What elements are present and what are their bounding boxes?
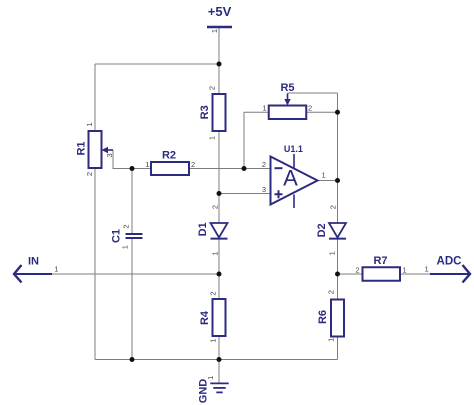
- wire IN pin to D1 node: [52, 273, 219, 275]
- junction +5V node: [217, 62, 222, 67]
- wire +5V rail down to R3 top: [218, 28, 220, 94]
- svg-text:2: 2: [208, 86, 217, 90]
- junction R5 pin2 / wiper node: [335, 110, 340, 115]
- svg-text:C1: C1: [111, 229, 123, 243]
- svg-text:R3: R3: [199, 105, 211, 119]
- resistor R4: [199, 299, 225, 336]
- wire R1 pin2 down to ground rail: [94, 168, 96, 360]
- svg-text:1: 1: [210, 251, 219, 255]
- svg-text:R6: R6: [317, 310, 329, 324]
- svg-text:1: 1: [208, 136, 217, 140]
- svg-text:2: 2: [191, 160, 195, 169]
- svg-text:1: 1: [206, 376, 215, 380]
- svg-text:GND: GND: [198, 379, 210, 404]
- ground GND: [198, 379, 229, 404]
- wire left branch down to R1 pin1: [94, 64, 96, 131]
- svg-text:U1.1: U1.1: [284, 144, 303, 154]
- svg-text:2: 2: [328, 205, 337, 209]
- wire top horizontal from R1 branch to +5V line: [95, 63, 219, 65]
- svg-text:1: 1: [210, 29, 219, 33]
- resistor R3: [199, 94, 225, 131]
- wire node to op-amp non-inverting input: [219, 193, 271, 195]
- svg-text:1: 1: [327, 338, 336, 342]
- svg-text:1: 1: [85, 122, 94, 126]
- wire GND stem: [218, 360, 220, 384]
- junction R1 wiper / R2 / C1 node: [130, 166, 135, 171]
- wire R3 bottom to D1 top: [218, 131, 220, 223]
- junction C1 / ground rail node: [130, 357, 135, 362]
- svg-text:2: 2: [262, 160, 266, 169]
- wire R6 bottom to ground rail: [337, 337, 339, 360]
- svg-text:R4: R4: [199, 310, 211, 325]
- wire bottom ground rail: [95, 359, 338, 361]
- resistor R6: [317, 300, 344, 337]
- svg-text:1: 1: [145, 160, 149, 169]
- wire ADC node down to R6 top: [337, 274, 339, 300]
- svg-text:1: 1: [403, 265, 407, 274]
- wire C1 bottom lead to ground rail: [131, 239, 133, 360]
- op-amp U1.1: [271, 144, 318, 208]
- junction op-amp output node: [335, 178, 340, 183]
- wire C1 top lead: [131, 169, 133, 234]
- svg-text:2: 2: [355, 265, 359, 274]
- junction D2 / R6 / R7 node: [335, 272, 340, 277]
- wire output node down to D2 top: [337, 181, 339, 224]
- wire R2 pin2 to op-amp inverting input: [189, 168, 271, 170]
- svg-text:2: 2: [210, 205, 219, 209]
- power symbol +5V: [207, 4, 232, 27]
- potentiometer R1: [76, 131, 114, 168]
- wire op-amp output to node: [318, 180, 338, 182]
- wire ADC node to R7 pin2: [338, 273, 363, 275]
- svg-text:R1: R1: [76, 141, 88, 155]
- svg-text:1: 1: [54, 264, 58, 273]
- wire R4 bottom to ground rail: [218, 337, 220, 360]
- resistor R2: [151, 150, 189, 176]
- junction feedback node at op-amp input: [242, 166, 247, 171]
- wire right branch down to op-amp output node: [337, 93, 339, 181]
- port ADC: [430, 255, 470, 282]
- svg-text:A: A: [283, 166, 298, 191]
- svg-text:R2: R2: [162, 150, 176, 162]
- wire R5 wiper over to right branch: [288, 92, 338, 94]
- svg-text:R5: R5: [280, 82, 294, 94]
- svg-text:3: 3: [105, 153, 114, 157]
- trimmer R5: [269, 82, 307, 119]
- wire R7 pin1 to ADC arrow: [400, 273, 430, 275]
- svg-text:2: 2: [85, 172, 94, 176]
- svg-text:2: 2: [121, 225, 130, 229]
- junction IN / D1 / R4 node: [217, 272, 222, 277]
- svg-text:R7: R7: [373, 255, 387, 267]
- wire R5 pin2 to right branch: [306, 111, 337, 113]
- svg-text:+5V: +5V: [208, 4, 232, 19]
- svg-text:2: 2: [308, 104, 312, 113]
- svg-text:D1: D1: [197, 222, 209, 236]
- svg-text:IN: IN: [28, 255, 39, 267]
- wire R2 node to R2 pin1: [132, 168, 151, 170]
- svg-text:ADC: ADC: [437, 255, 462, 267]
- wire IN net junction down to R4 top: [218, 274, 220, 299]
- svg-text:2: 2: [327, 290, 336, 294]
- svg-text:1: 1: [121, 245, 130, 249]
- svg-text:1: 1: [328, 251, 337, 255]
- svg-text:1: 1: [322, 171, 326, 180]
- diode D1: [197, 222, 227, 238]
- diode D2: [316, 223, 346, 239]
- svg-text:2: 2: [209, 291, 218, 295]
- wire R1 wiper to R2 node: [113, 150, 132, 169]
- svg-text:3: 3: [262, 185, 266, 194]
- wire D1 bottom to IN net: [218, 239, 220, 275]
- port IN: [14, 255, 52, 282]
- junction R3 / D1 / non-inverting input node: [217, 191, 222, 196]
- junction GND / ground rail node: [217, 357, 222, 362]
- wire D2 bottom to ADC net: [337, 239, 339, 275]
- svg-text:1: 1: [425, 264, 429, 273]
- svg-text:1: 1: [209, 338, 218, 342]
- wire feedback node up to R5 pin1: [244, 112, 269, 168]
- resistor R7: [363, 255, 401, 281]
- capacitor C1: [111, 229, 143, 243]
- svg-text:1: 1: [262, 104, 266, 113]
- svg-text:D2: D2: [316, 223, 328, 237]
